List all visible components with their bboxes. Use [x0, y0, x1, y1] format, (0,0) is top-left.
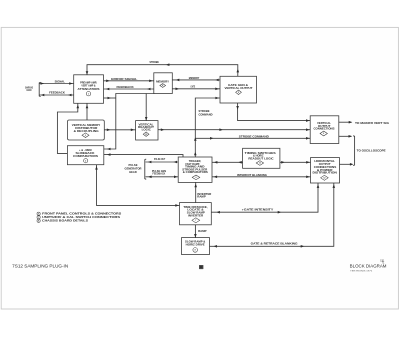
svg-text:LOGIC: LOGIC: [142, 127, 151, 131]
wire: strobe (gate top, up, left, down into preamp top): [86, 60, 239, 76]
svg-text:FEEDBACK: FEEDBACK: [153, 172, 166, 176]
wire: gate & retrace blanking (slow ramp to horizontal output bottom): [210, 183, 336, 248]
block U11: time distance, locate & slow ramp inverter: [180, 203, 212, 225]
svg-text:CHASSIS BOARD DETAILS: CHASSIS BOARD DETAILS: [42, 219, 88, 223]
svg-text:STROBE COMMAND: STROBE COMMAND: [239, 134, 269, 138]
wire: interdot blanking: [212, 173, 311, 178]
svg-text:TEKTRONIX 1971: TEKTRONIX 1971: [350, 271, 373, 273]
svg-text:COMPARATORS: COMPARATORS: [73, 154, 98, 158]
block U9: vertical output connections: [310, 116, 339, 144]
svg-text:GATE & RETRACE BLANKING: GATE & RETRACE BLANKING: [251, 241, 298, 245]
block U3: gate gen & vertical output: [220, 76, 257, 103]
svg-text:TO MAINFR VERT SIG: TO MAINFR VERT SIG: [355, 121, 390, 125]
legend note 8: chassis board details: [37, 219, 88, 223]
svg-text:ERROR SIGNAL: ERROR SIGNAL: [111, 77, 138, 81]
wire: vertical output to mainframe vert sig: [339, 121, 390, 125]
svg-text:15: 15: [145, 134, 147, 136]
wire: memory (gate gen to memory block): [172, 76, 220, 81]
wire: distributor to readout logic: [104, 129, 135, 132]
wire: feedback (preamp to sampling head): [39, 91, 73, 97]
wire: branch down into vertical readout logic: [145, 94, 148, 121]
block U6: + & - mem slideback comparators: [67, 146, 103, 165]
node: oscilloscope bracket: [353, 136, 386, 166]
svg-text:7S12 SAMPLING PLUG-IN: 7S12 SAMPLING PLUG-IN: [12, 264, 68, 269]
svg-text:9: 9: [323, 133, 324, 135]
block U12: slow ramp & horiz drive: [182, 238, 210, 255]
svg-text:CONNECTIONS: CONNECTIONS: [314, 127, 335, 131]
svg-text:GENERATOR: GENERATOR: [125, 166, 142, 170]
svg-text:3: 3: [85, 135, 86, 137]
block U2: memory: [154, 73, 173, 94]
svg-text:PULSE OUT: PULSE OUT: [154, 157, 166, 161]
svg-text:ATTENUATORS: ATTENUATORS: [78, 87, 100, 91]
svg-text:INVERTER: INVERTER: [188, 213, 203, 217]
svg-text:FRONT PANEL CONTROLS & CONNECT: FRONT PANEL CONTROLS & CONNECTORS: [42, 212, 121, 216]
svg-text:11: 11: [259, 163, 261, 165]
svg-text:2: 2: [85, 160, 86, 162]
wire: signal (sampling head to preamp): [39, 80, 73, 85]
wire: inverter ramp (inverter top to big block bottom): [194, 182, 211, 202]
wire: strobe command branch to vertical output connections: [195, 134, 310, 139]
svg-text:FEEDBACK: FEEDBACK: [117, 85, 134, 89]
svg-text:& COMPARATORS: & COMPARATORS: [183, 170, 208, 174]
wire: feedback (memory to preamp): [104, 85, 154, 90]
svg-text:VERTICAL OUTPUT: VERTICAL OUTPUT: [225, 86, 253, 90]
svg-text:6: 6: [195, 177, 196, 179]
svg-text:FEEDBACK: FEEDBACK: [49, 91, 65, 95]
block U1: preamp, vert amp & attenuators: [74, 75, 104, 104]
wire: preamp feedback loop (left side down to slideback): [57, 103, 79, 153]
block U10: horizontal output connections & power distribution: [311, 158, 340, 183]
block U7: trigger, fast ramp, timing and strobe pulser & comparators: [178, 157, 212, 182]
wire: strobe command vertical (big block top to gate gen): [194, 97, 220, 157]
wire: gate (memory to gate gen): [172, 85, 220, 91]
svg-text:GATE: GATE: [191, 85, 196, 89]
wire: horizontal output to oscilloscope: [340, 163, 354, 166]
svg-text:UNITS/DIV & CAL SWITCH CONNECT: UNITS/DIV & CAL SWITCH CONNECTORS: [42, 215, 120, 219]
wire: ramp (inverter bottom to slow ramp top): [194, 225, 207, 238]
wire: pulse out (big block to pulse gen head): [146, 157, 179, 163]
wire: +gate intensity (inverter to horizontal output bottom): [211, 183, 319, 214]
svg-text:DISTRIBUTION: DISTRIBUTION: [313, 171, 338, 175]
svg-text:+GATE INTENSITY: +GATE INTENSITY: [242, 207, 274, 211]
legend note 6: front panel controls & connectors: [37, 212, 121, 216]
wire: preamp output joins loop: [104, 97, 116, 100]
svg-text:STROBE: STROBE: [149, 60, 159, 64]
svg-text:7: 7: [195, 220, 196, 222]
wire: vertical output to oscilloscope: [339, 135, 352, 138]
svg-text:MEMORY: MEMORY: [156, 79, 169, 83]
wire: error signal (preamp to memory): [104, 77, 154, 82]
svg-text:PULSE: PULSE: [129, 163, 138, 167]
svg-text:HEAD: HEAD: [129, 170, 137, 174]
svg-text:RAMP: RAMP: [198, 229, 207, 233]
svg-text:RAMP: RAMP: [197, 195, 206, 199]
svg-text:MEMORY: MEMORY: [189, 76, 200, 80]
wire: gate gen bottom to vertical output connections: [236, 103, 310, 122]
block U8: timing switches & horiz readout logic: [243, 148, 280, 168]
wire: distributor top to preamp bottom: [86, 103, 89, 120]
block U4: vertical memory distributor & decoupling: [68, 120, 105, 140]
svg-text:TO OSCILLOSCOPE: TO OSCILLOSCOPE: [357, 149, 386, 153]
svg-text:1: 1: [88, 94, 89, 96]
block U5: vertical readout logic: [136, 121, 158, 140]
wire: memory bottom loop to slideback comparators: [104, 94, 155, 151]
svg-text:COMMAND: COMMAND: [199, 112, 213, 116]
svg-text:SIGNAL: SIGNAL: [55, 80, 66, 84]
svg-text:READOUT LOGIC: READOUT LOGIC: [248, 156, 273, 160]
svg-text:& DECOUPLING: & DECOUPLING: [74, 129, 99, 133]
node: sampling head bracket: [25, 82, 41, 96]
wire: timing switches to horizontal output (right): [280, 161, 311, 164]
svg-text:12: 12: [323, 178, 325, 180]
svg-text:8: 8: [195, 250, 196, 252]
legend note 7: units/div & cal switch connectors: [37, 215, 120, 219]
svg-text:BLOCK DIAGRAM: BLOCK DIAGRAM: [350, 264, 387, 269]
wire: long line big block top-left to slideback right: [104, 153, 183, 157]
svg-text:5: 5: [238, 92, 239, 94]
svg-text:INTERDOT BLANKING: INTERDOT BLANKING: [237, 173, 267, 177]
wire: slideback bottom loop to inverter: [95, 165, 179, 207]
svg-text:HEAD: HEAD: [27, 88, 32, 92]
node: page registration mark: [199, 265, 203, 269]
wire: timing switches to big block (left): [212, 161, 243, 164]
svg-text:HORIZ DRIVE: HORIZ DRIVE: [186, 243, 205, 247]
node: pulse generator head bracket: [125, 159, 147, 179]
wire: pulse gen feedback: [146, 169, 179, 178]
wire: readout logic to vertical output connections: [158, 128, 310, 131]
